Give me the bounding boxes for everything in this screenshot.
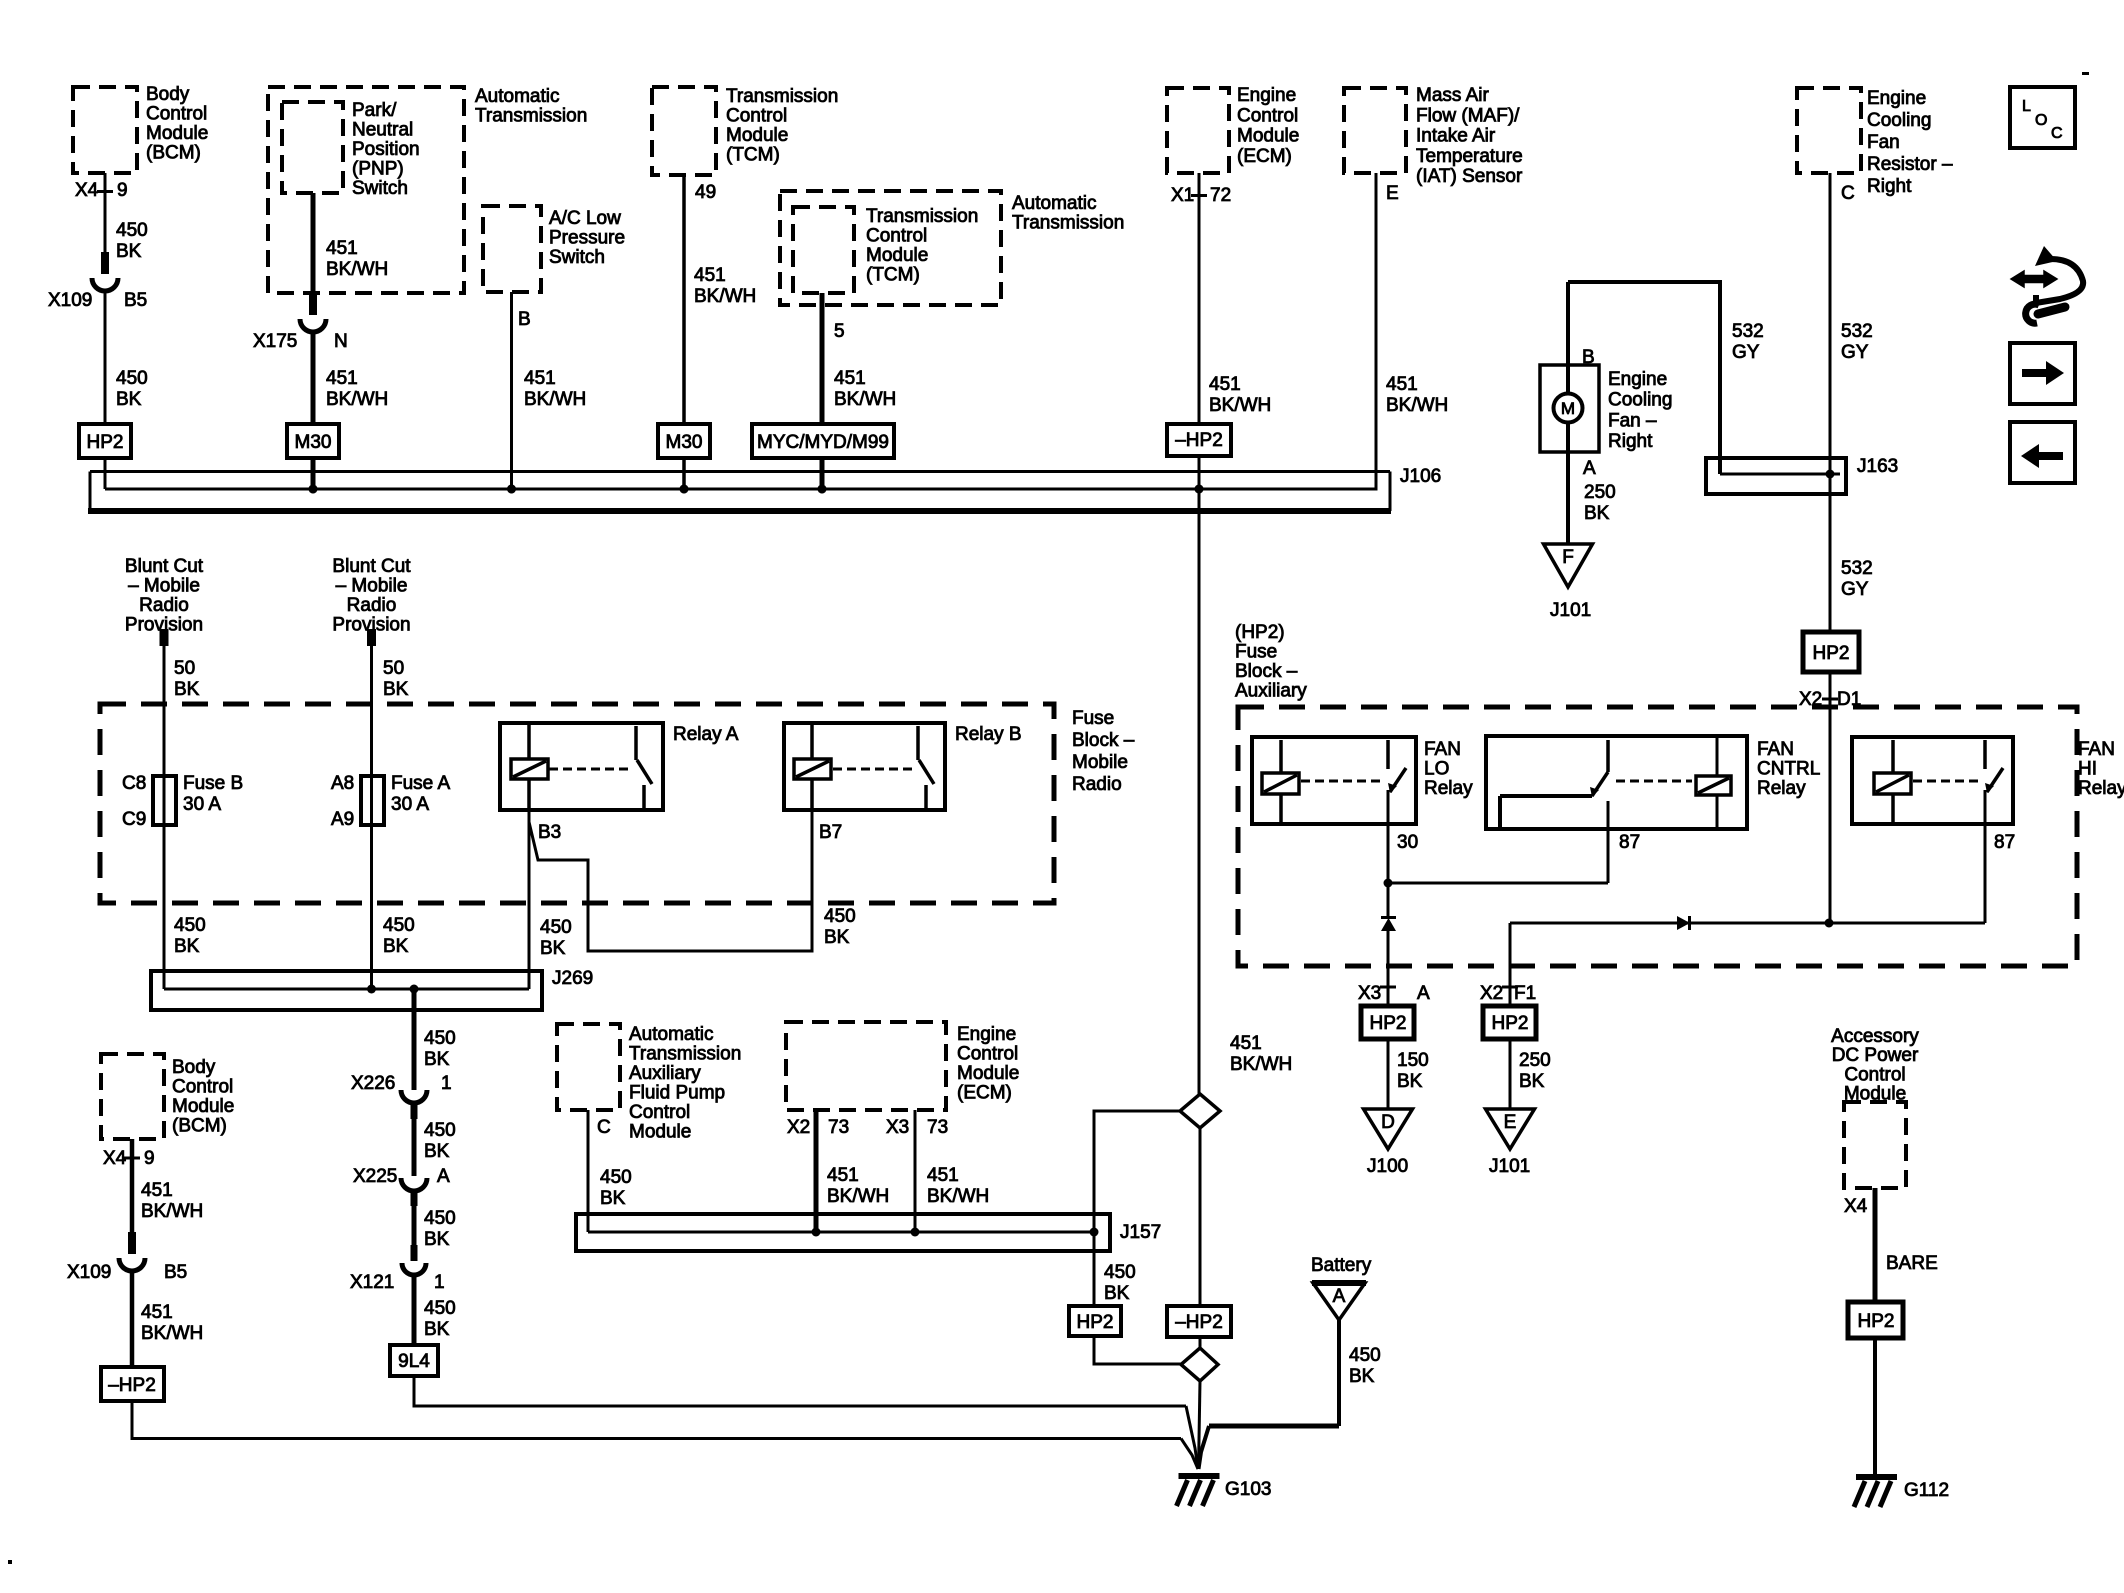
svg-text:451: 451 <box>141 1180 173 1201</box>
svg-text:C: C <box>597 1117 611 1138</box>
svg-text:BK/WH: BK/WH <box>326 389 388 410</box>
svg-text:LO: LO <box>1424 759 1449 780</box>
svg-text:M30: M30 <box>666 432 703 453</box>
svg-text:– Mobile: – Mobile <box>336 576 408 597</box>
svg-text:J269: J269 <box>552 968 593 989</box>
svg-text:–HP2: –HP2 <box>1175 1312 1223 1333</box>
svg-text:9L4: 9L4 <box>398 1351 430 1372</box>
svg-text:E: E <box>1386 183 1399 204</box>
svg-text:X3: X3 <box>1358 983 1381 1004</box>
svg-text:Resistor –: Resistor – <box>1867 154 1953 175</box>
svg-text:BK/WH: BK/WH <box>827 1186 889 1207</box>
svg-text:Radio: Radio <box>1072 774 1122 795</box>
svg-text:FAN: FAN <box>2078 739 2115 760</box>
svg-text:Cooling: Cooling <box>1608 390 1672 411</box>
svg-text:HP2: HP2 <box>1813 643 1850 664</box>
svg-text:Module: Module <box>629 1122 691 1143</box>
svg-text:Auxiliary: Auxiliary <box>629 1063 701 1084</box>
svg-text:J163: J163 <box>1857 456 1898 477</box>
svg-text:B5: B5 <box>164 1262 187 1283</box>
svg-text:450: 450 <box>600 1167 632 1188</box>
svg-text:J101: J101 <box>1550 600 1591 621</box>
svg-text:(PNP): (PNP) <box>352 159 404 180</box>
svg-text:BK/WH: BK/WH <box>1209 395 1271 416</box>
svg-text:BK: BK <box>424 1229 450 1250</box>
svg-text:532: 532 <box>1841 321 1873 342</box>
svg-text:Engine: Engine <box>1867 88 1926 109</box>
svg-text:X4: X4 <box>1844 1196 1868 1217</box>
svg-text:Module: Module <box>1237 126 1299 147</box>
svg-text:49: 49 <box>695 182 716 203</box>
svg-text:30 A: 30 A <box>391 794 429 815</box>
svg-text:451: 451 <box>1386 374 1418 395</box>
svg-text:–HP2: –HP2 <box>108 1375 156 1396</box>
svg-text:BK: BK <box>174 936 200 957</box>
svg-text:Position: Position <box>352 139 420 160</box>
svg-text:Relay: Relay <box>1757 778 1806 799</box>
svg-text:Neutral: Neutral <box>352 120 413 141</box>
svg-text:1: 1 <box>434 1272 445 1293</box>
svg-text:Relay: Relay <box>2078 778 2124 799</box>
svg-text:BK: BK <box>424 1319 450 1340</box>
svg-text:Block –: Block – <box>1072 730 1135 751</box>
svg-text:– Mobile: – Mobile <box>128 576 200 597</box>
svg-text:N: N <box>334 331 348 352</box>
svg-text:Fan: Fan <box>1867 132 1900 153</box>
svg-text:87: 87 <box>1994 832 2015 853</box>
svg-text:Intake Air: Intake Air <box>1416 126 1496 147</box>
svg-text:BK: BK <box>1104 1283 1130 1304</box>
svg-text:450: 450 <box>383 915 415 936</box>
svg-text:Control: Control <box>1237 105 1298 126</box>
svg-text:30 A: 30 A <box>183 794 221 815</box>
svg-text:250: 250 <box>1519 1050 1551 1071</box>
svg-text:D: D <box>1381 1112 1395 1133</box>
svg-text:451: 451 <box>141 1302 173 1323</box>
svg-text:M: M <box>1561 399 1575 418</box>
svg-text:450: 450 <box>824 906 856 927</box>
svg-text:Module: Module <box>957 1063 1019 1084</box>
svg-text:Automatic: Automatic <box>475 86 559 107</box>
svg-text:B3: B3 <box>538 822 561 843</box>
svg-text:Relay A: Relay A <box>673 724 739 745</box>
svg-text:BK: BK <box>424 1049 450 1070</box>
svg-text:BK: BK <box>174 679 200 700</box>
svg-text:X2: X2 <box>1480 983 1503 1004</box>
svg-text:Radio: Radio <box>347 595 397 616</box>
svg-text:532: 532 <box>1732 321 1764 342</box>
svg-text:FAN: FAN <box>1424 739 1461 760</box>
svg-text:Fan –: Fan – <box>1608 410 1657 431</box>
svg-text:BK: BK <box>1519 1071 1545 1092</box>
svg-text:C: C <box>1841 183 1855 204</box>
svg-text:451: 451 <box>1209 374 1241 395</box>
svg-text:X121: X121 <box>350 1272 394 1293</box>
svg-text:A: A <box>437 1166 450 1187</box>
svg-text:Engine: Engine <box>957 1024 1016 1045</box>
svg-text:Control: Control <box>1844 1064 1905 1085</box>
svg-text:BK/WH: BK/WH <box>1386 395 1448 416</box>
svg-text:Flow (MAF)/: Flow (MAF)/ <box>1416 105 1520 126</box>
svg-text:O: O <box>2035 112 2047 129</box>
svg-text:451: 451 <box>927 1165 959 1186</box>
svg-text:Control: Control <box>957 1044 1018 1065</box>
svg-text:Park/: Park/ <box>352 100 397 121</box>
svg-text:Automatic: Automatic <box>1012 193 1096 214</box>
svg-text:BARE: BARE <box>1886 1253 1938 1274</box>
svg-text:HP2: HP2 <box>1858 1311 1895 1332</box>
svg-text:Transmission: Transmission <box>629 1044 741 1065</box>
svg-text:Mass Air: Mass Air <box>1416 85 1490 106</box>
svg-text:250: 250 <box>1584 482 1616 503</box>
svg-text:E: E <box>1504 1112 1517 1133</box>
svg-text:Control: Control <box>866 226 927 247</box>
svg-text:BK/WH: BK/WH <box>927 1186 989 1207</box>
svg-text:450: 450 <box>424 1028 456 1049</box>
svg-text:73: 73 <box>927 1117 948 1138</box>
svg-text:BK: BK <box>383 936 409 957</box>
svg-text:BK: BK <box>424 1141 450 1162</box>
svg-text:Module: Module <box>146 123 208 144</box>
svg-text:B: B <box>518 309 531 330</box>
svg-text:450: 450 <box>540 917 572 938</box>
svg-text:A/C Low: A/C Low <box>549 208 621 229</box>
svg-text:X109: X109 <box>67 1262 111 1283</box>
svg-text:Fuse B: Fuse B <box>183 773 243 794</box>
svg-text:MYC/MYD/M99: MYC/MYD/M99 <box>757 432 889 453</box>
svg-text:Module: Module <box>726 125 788 146</box>
svg-text:451: 451 <box>326 368 358 389</box>
svg-text:451: 451 <box>694 265 726 286</box>
svg-text:A: A <box>1417 983 1430 1004</box>
svg-text:Auxiliary: Auxiliary <box>1235 681 1307 702</box>
svg-text:450: 450 <box>174 915 206 936</box>
svg-text:Body: Body <box>172 1057 216 1078</box>
svg-text:532: 532 <box>1841 558 1873 579</box>
svg-text:Fuse A: Fuse A <box>391 773 450 794</box>
svg-text:G112: G112 <box>1904 1480 1949 1501</box>
svg-text:BK/WH: BK/WH <box>834 389 896 410</box>
svg-text:BK/WH: BK/WH <box>141 1323 203 1344</box>
svg-text:BK: BK <box>383 679 409 700</box>
svg-text:150: 150 <box>1397 1050 1429 1071</box>
svg-text:Right: Right <box>1608 431 1653 452</box>
svg-text:Battery: Battery <box>1311 1255 1372 1276</box>
svg-text:X226: X226 <box>351 1073 395 1094</box>
svg-text:Transmission: Transmission <box>726 86 838 107</box>
svg-text:451: 451 <box>326 238 358 259</box>
svg-text:(HP2): (HP2) <box>1235 622 1285 643</box>
svg-text:Temperature: Temperature <box>1416 146 1523 167</box>
svg-text:BK/WH: BK/WH <box>326 259 388 280</box>
svg-text:X1: X1 <box>1171 185 1194 206</box>
svg-text:M30: M30 <box>295 432 332 453</box>
svg-text:BK: BK <box>1584 503 1610 524</box>
svg-text:J101: J101 <box>1489 1156 1530 1177</box>
svg-text:451: 451 <box>1230 1033 1262 1054</box>
svg-text:Right: Right <box>1867 176 1912 197</box>
svg-text:C: C <box>2051 125 2063 142</box>
svg-text:J157: J157 <box>1120 1222 1161 1243</box>
svg-text:L: L <box>2022 98 2031 115</box>
svg-text:Control: Control <box>172 1077 233 1098</box>
svg-text:X4: X4 <box>103 1148 127 1169</box>
svg-text:30: 30 <box>1397 832 1418 853</box>
svg-text:1: 1 <box>441 1073 452 1094</box>
svg-text:Transmission: Transmission <box>866 206 978 227</box>
svg-text:GY: GY <box>1841 342 1869 363</box>
svg-text:A9: A9 <box>331 809 354 830</box>
svg-text:Engine: Engine <box>1237 85 1296 106</box>
svg-text:87: 87 <box>1619 832 1640 853</box>
svg-text:Fluid Pump: Fluid Pump <box>629 1083 725 1104</box>
svg-text:(TCM): (TCM) <box>726 145 780 166</box>
svg-text:B7: B7 <box>819 822 842 843</box>
svg-text:Fuse: Fuse <box>1072 708 1114 729</box>
svg-text:BK: BK <box>600 1188 626 1209</box>
svg-text:X109: X109 <box>48 290 92 311</box>
svg-text:450: 450 <box>1104 1262 1136 1283</box>
svg-text:Control: Control <box>629 1102 690 1123</box>
svg-text:A8: A8 <box>331 773 354 794</box>
svg-text:Pressure: Pressure <box>549 228 625 249</box>
svg-text:(ECM): (ECM) <box>1237 146 1292 167</box>
svg-text:(BCM): (BCM) <box>146 143 201 164</box>
svg-text:Cooling: Cooling <box>1867 110 1931 131</box>
svg-text:Mobile: Mobile <box>1072 752 1128 773</box>
svg-text:9: 9 <box>117 180 128 201</box>
svg-text:HI: HI <box>2078 759 2097 780</box>
svg-text:Blunt Cut: Blunt Cut <box>332 556 411 577</box>
svg-text:BK: BK <box>824 927 850 948</box>
svg-text:X3: X3 <box>886 1117 909 1138</box>
svg-text:5: 5 <box>834 321 845 342</box>
svg-text:G103: G103 <box>1225 1479 1271 1500</box>
svg-text:450: 450 <box>116 368 148 389</box>
svg-text:Engine: Engine <box>1608 369 1667 390</box>
svg-text:50: 50 <box>383 658 404 679</box>
svg-text:A: A <box>1333 1286 1346 1307</box>
svg-text:450: 450 <box>116 220 148 241</box>
svg-text:Transmission: Transmission <box>475 106 587 127</box>
svg-text:HP2: HP2 <box>87 432 124 453</box>
svg-text:(TCM): (TCM) <box>866 265 920 286</box>
svg-text:BK: BK <box>1349 1366 1375 1387</box>
svg-text:(ECM): (ECM) <box>957 1083 1012 1104</box>
svg-text:A: A <box>1583 458 1596 479</box>
svg-text:Control: Control <box>146 104 207 125</box>
svg-text:Transmission: Transmission <box>1012 213 1124 234</box>
svg-text:HP2: HP2 <box>1077 1312 1114 1333</box>
svg-text:Relay: Relay <box>1424 778 1473 799</box>
svg-text:Control: Control <box>726 106 787 127</box>
svg-text:BK: BK <box>540 938 566 959</box>
svg-text:B: B <box>1582 347 1595 368</box>
svg-text:J100: J100 <box>1367 1156 1408 1177</box>
svg-text:Relay B: Relay B <box>955 724 1022 745</box>
svg-text:–HP2: –HP2 <box>1175 430 1223 451</box>
svg-text:HP2: HP2 <box>1492 1013 1529 1034</box>
svg-text:Switch: Switch <box>352 178 408 199</box>
svg-text:Module: Module <box>866 245 928 266</box>
svg-text:BK/WH: BK/WH <box>1230 1054 1292 1075</box>
svg-text:450: 450 <box>424 1208 456 1229</box>
svg-text:451: 451 <box>524 368 556 389</box>
svg-text:BK/WH: BK/WH <box>141 1201 203 1222</box>
svg-text:Blunt Cut: Blunt Cut <box>125 556 204 577</box>
svg-text:BK: BK <box>116 389 142 410</box>
svg-text:CNTRL: CNTRL <box>1757 759 1820 780</box>
svg-text:BK/WH: BK/WH <box>694 286 756 307</box>
svg-text:DC Power: DC Power <box>1832 1045 1919 1066</box>
svg-text:Accessory: Accessory <box>1831 1026 1919 1047</box>
svg-text:X175: X175 <box>253 331 297 352</box>
svg-text:HP2: HP2 <box>1370 1013 1407 1034</box>
svg-text:451: 451 <box>827 1165 859 1186</box>
svg-text:450: 450 <box>424 1298 456 1319</box>
svg-text:(BCM): (BCM) <box>172 1116 227 1137</box>
svg-text:GY: GY <box>1732 342 1760 363</box>
svg-text:BK: BK <box>116 241 142 262</box>
svg-text:73: 73 <box>828 1117 849 1138</box>
svg-text:X4: X4 <box>75 180 99 201</box>
svg-text:Body: Body <box>146 84 190 105</box>
svg-text:X225: X225 <box>353 1166 397 1187</box>
svg-text:Radio: Radio <box>139 595 189 616</box>
svg-text:Switch: Switch <box>549 247 605 268</box>
svg-text:50: 50 <box>174 658 195 679</box>
svg-text:Block –: Block – <box>1235 661 1298 682</box>
svg-text:C8: C8 <box>122 773 146 794</box>
svg-text:451: 451 <box>834 368 866 389</box>
svg-text:B5: B5 <box>124 290 147 311</box>
svg-text:(IAT) Sensor: (IAT) Sensor <box>1416 166 1523 187</box>
svg-text:BK: BK <box>1397 1071 1423 1092</box>
svg-text:BK/WH: BK/WH <box>524 389 586 410</box>
svg-text:450: 450 <box>1349 1345 1381 1366</box>
svg-text:GY: GY <box>1841 579 1869 600</box>
svg-text:F: F <box>1562 547 1574 568</box>
svg-text:Module: Module <box>172 1096 234 1117</box>
svg-text:450: 450 <box>424 1120 456 1141</box>
svg-text:FAN: FAN <box>1757 739 1794 760</box>
svg-text:J106: J106 <box>1400 466 1441 487</box>
svg-text:9: 9 <box>144 1148 155 1169</box>
svg-text:72: 72 <box>1210 185 1231 206</box>
svg-text:X2: X2 <box>787 1117 810 1138</box>
svg-text:C9: C9 <box>122 809 146 830</box>
svg-text:Automatic: Automatic <box>629 1024 713 1045</box>
svg-text:Fuse: Fuse <box>1235 642 1277 663</box>
